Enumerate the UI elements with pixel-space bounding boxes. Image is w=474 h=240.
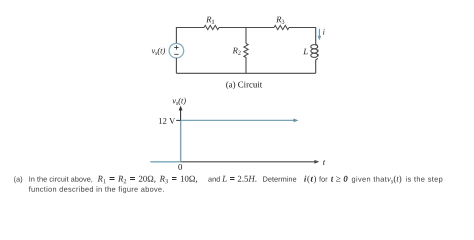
paragraph text: given that — [352, 176, 387, 183]
label R1 — [206, 17, 214, 24]
graph y-axis — [180, 110, 182, 162]
graph label t — [323, 160, 325, 165]
wire top-left segment — [176, 28, 204, 44]
inductor L coil — [311, 44, 318, 59]
step function 12V level — [181, 119, 294, 121]
label L — [303, 49, 308, 55]
paragraph text: Determine — [263, 176, 296, 182]
wire R2 branch top — [245, 28, 247, 44]
current arrow i — [318, 29, 320, 37]
voltage source vs(t) — [169, 43, 184, 58]
minus sign — [174, 53, 178, 55]
label i — [323, 29, 325, 35]
graph label vs(t) — [172, 98, 185, 106]
paragraph text: and — [208, 176, 220, 182]
math vs(t) — [387, 176, 401, 184]
math t >= 0 — [331, 176, 348, 182]
wire R2 branch bottom — [245, 58, 247, 74]
wire bottom — [176, 72, 315, 74]
caption (a) Circuit — [226, 81, 262, 89]
step function zero segment — [150, 161, 180, 163]
paragraph line 2 — [29, 186, 164, 193]
graph t-axis — [181, 161, 316, 163]
paragraph text: In the circuit above, — [29, 176, 92, 182]
wire right-bottom segment — [315, 60, 317, 74]
wire left-bottom segment — [175, 58, 177, 73]
plus sign — [174, 45, 178, 49]
step function rise at t=0 — [180, 120, 182, 162]
paragraph label (a) — [14, 176, 22, 183]
wire top-middle segment — [219, 27, 274, 29]
resistor R1 — [204, 25, 219, 29]
tick 12V — [176, 119, 180, 121]
label 0 — [178, 164, 182, 170]
wire top-right segment — [289, 28, 316, 45]
resistor R2 — [244, 44, 248, 58]
label R2 — [233, 48, 241, 55]
label vs(t) source — [152, 48, 165, 56]
math R1 = R2 = 20ohm, R3 = 10ohm, — [98, 176, 198, 184]
paragraph text: is the step — [406, 176, 442, 183]
math L = 2.5H. — [222, 176, 256, 182]
label R3 — [276, 17, 284, 24]
math i(t) — [304, 176, 316, 184]
paragraph text: for — [319, 176, 327, 182]
resistor R3 — [274, 25, 289, 29]
label 12 V — [159, 118, 175, 124]
